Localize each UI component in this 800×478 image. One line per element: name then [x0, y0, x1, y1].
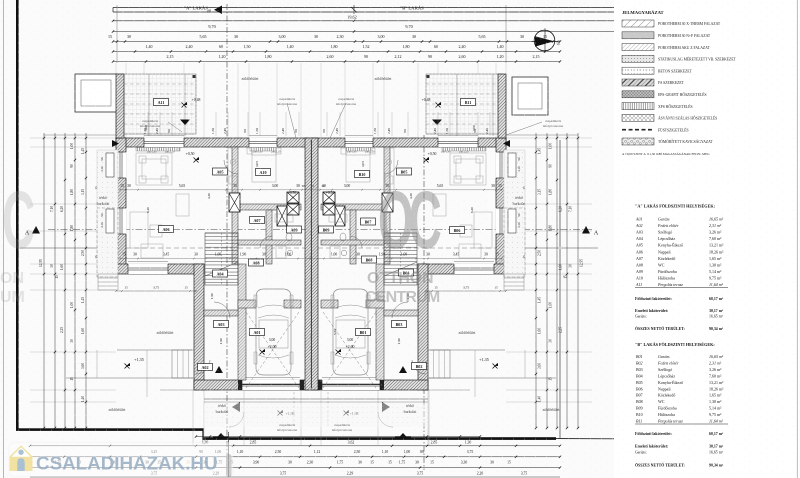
svg-text:15: 15 [120, 184, 124, 188]
svg-text:A11: A11 [635, 282, 642, 287]
svg-text:30: 30 [301, 184, 305, 188]
svg-text:30: 30 [288, 461, 292, 465]
svg-text:1,80: 1,80 [549, 225, 554, 231]
svg-text:A01: A01 [635, 217, 642, 222]
svg-text:6,20: 6,20 [146, 207, 151, 213]
svg-text:Konyha-Étkező: Konyha-Étkező [658, 243, 683, 248]
svg-text:1,00: 1,00 [70, 302, 75, 308]
svg-text:+0,50: +0,50 [428, 152, 437, 157]
svg-text:B03: B03 [636, 367, 643, 372]
svg-text:"B" LAKÁS FÖLDSZINTI HELYISÉGE: "B" LAKÁS FÖLDSZINTI HELYISÉGEK: [635, 342, 715, 347]
svg-text:5,65: 5,65 [179, 184, 186, 189]
svg-text:1,00: 1,00 [549, 302, 554, 308]
svg-text:2,10: 2,10 [100, 166, 104, 172]
svg-text:1,60: 1,60 [559, 264, 564, 270]
svg-text:FÜSTSZIGETELÉS: FÜSTSZIGETELÉS [658, 127, 689, 132]
svg-text:1,50: 1,50 [244, 44, 251, 50]
svg-text:15: 15 [124, 286, 128, 290]
svg-text:A10: A10 [259, 170, 266, 175]
svg-text:ÖSSZES NETTÓ TERÜLET:: ÖSSZES NETTÓ TERÜLET: [635, 326, 685, 331]
svg-text:3,00: 3,00 [272, 184, 279, 189]
svg-text:3,60: 3,60 [538, 363, 543, 369]
svg-text:1,40: 1,40 [497, 44, 504, 50]
svg-text:3,00: 3,00 [347, 338, 354, 343]
svg-text:1,45: 1,45 [538, 297, 543, 303]
svg-text:csapadékvíz: csapadékvíz [142, 119, 159, 123]
svg-text:Földszinti lakóterület:: Földszinti lakóterület: [635, 297, 672, 301]
svg-text:2,40: 2,40 [186, 44, 193, 50]
svg-text:burkolat: burkolat [513, 202, 527, 206]
svg-text:3,75: 3,75 [417, 471, 424, 476]
svg-text:Garázs:: Garázs: [635, 314, 647, 318]
svg-text:B01: B01 [636, 354, 642, 359]
svg-text:EPS-GRAFIT HŐSZIGETELÉS: EPS-GRAFIT HŐSZIGETELÉS [658, 92, 707, 97]
svg-text:B11: B11 [636, 419, 642, 424]
svg-text:30: 30 [234, 34, 238, 39]
svg-text:15: 15 [564, 275, 568, 279]
svg-text:A06: A06 [636, 249, 643, 254]
svg-text:2,29: 2,29 [347, 471, 354, 476]
svg-text:lefolyócsatorna: lefolyócsatorna [336, 102, 357, 106]
svg-text:Lépcsőház: Lépcsőház [658, 236, 675, 241]
svg-text:Fürdőszoba: Fürdőszoba [658, 406, 677, 411]
svg-text:1,60: 1,60 [538, 328, 543, 334]
svg-text:A04: A04 [216, 271, 223, 276]
svg-text:B10: B10 [359, 172, 366, 177]
svg-text:1,60: 1,60 [60, 264, 65, 270]
svg-text:3,05: 3,05 [361, 161, 366, 167]
svg-text:A07: A07 [253, 218, 260, 223]
svg-text:B08: B08 [636, 399, 643, 404]
svg-text:15: 15 [70, 377, 74, 381]
svg-text:30: 30 [127, 184, 131, 188]
svg-text:2,49: 2,49 [281, 128, 286, 134]
svg-text:30: 30 [549, 339, 553, 343]
svg-text:2,50: 2,50 [354, 450, 361, 455]
svg-text:1,40: 1,40 [81, 396, 86, 402]
svg-text:Nappali: Nappali [658, 386, 672, 391]
svg-text:15: 15 [122, 253, 126, 257]
svg-text:A01: A01 [253, 330, 260, 335]
svg-text:1,12: 1,12 [314, 450, 321, 455]
svg-text:A08: A08 [636, 262, 643, 267]
svg-text:2,12: 2,12 [395, 54, 402, 60]
svg-text:2,10: 2,10 [517, 166, 521, 172]
svg-text:5,65: 5,65 [479, 34, 486, 40]
svg-text:A08: A08 [252, 260, 259, 265]
svg-text:1,80: 1,80 [331, 44, 338, 50]
svg-text:90: 90 [167, 129, 171, 133]
svg-text:"A" LAKÁS: "A" LAKÁS [184, 6, 208, 11]
svg-text:1,00: 1,00 [549, 143, 554, 149]
svg-text:burkolat: burkolat [97, 202, 111, 206]
svg-text:ÁSVÁNYI SZÁLAS HŐSZIGETELÉS: ÁSVÁNYI SZÁLAS HŐSZIGETELÉS [658, 116, 717, 121]
svg-text:A06: A06 [162, 227, 169, 232]
svg-text:Pergolás terasz: Pergolás terasz [657, 419, 683, 424]
svg-text:1,60: 1,60 [81, 328, 86, 334]
svg-text:30: 30 [412, 34, 416, 39]
svg-text:A09: A09 [290, 227, 297, 232]
svg-text:30,17 m²: 30,17 m² [709, 309, 724, 313]
svg-text:B10: B10 [636, 412, 643, 417]
svg-text:B08: B08 [366, 257, 373, 262]
svg-text:3,00: 3,00 [378, 34, 385, 40]
svg-text:7,10: 7,10 [569, 206, 574, 212]
svg-text:3,62: 3,62 [348, 441, 355, 446]
svg-text:B05: B05 [636, 380, 643, 385]
svg-text:5,65: 5,65 [200, 34, 207, 40]
svg-text:C: C [2, 175, 35, 266]
svg-text:B09: B09 [323, 227, 330, 232]
svg-text:térkő: térkő [99, 196, 107, 200]
svg-text:9,70: 9,70 [208, 24, 215, 30]
svg-text:2,50: 2,50 [538, 250, 543, 256]
svg-text:90: 90 [403, 129, 407, 133]
svg-text:6,20: 6,20 [559, 206, 564, 212]
svg-text:2,10: 2,10 [100, 222, 104, 228]
svg-text:30: 30 [127, 34, 131, 39]
svg-text:15: 15 [55, 275, 59, 279]
svg-text:3,75: 3,75 [280, 471, 287, 476]
svg-text:90: 90 [243, 129, 247, 133]
svg-text:Emeleti lakóterület:: Emeleti lakóterület: [635, 309, 668, 313]
svg-text:térkő: térkő [515, 196, 523, 200]
svg-text:30: 30 [133, 253, 137, 257]
svg-text:12,95: 12,95 [580, 259, 585, 267]
svg-text:3,45: 3,45 [163, 253, 170, 258]
svg-text:5,55: 5,55 [333, 329, 338, 335]
svg-text:3,00: 3,00 [269, 338, 276, 343]
svg-text:lefolyócsatorna: lefolyócsatorna [332, 428, 353, 432]
svg-text:15: 15 [549, 377, 553, 381]
svg-text:B02: B02 [416, 364, 423, 369]
svg-text:POROTHERM 30 N+F FALAZAT: POROTHERM 30 N+F FALAZAT [658, 34, 711, 38]
svg-text:2,50: 2,50 [275, 450, 282, 455]
svg-text:1,90: 1,90 [240, 253, 247, 258]
svg-text:Fedett előtér: Fedett előtér [657, 360, 679, 365]
svg-text:1,45: 1,45 [538, 148, 543, 154]
svg-text:A03: A03 [636, 230, 643, 235]
svg-text:B05: B05 [401, 169, 408, 174]
svg-text:A09: A09 [636, 269, 643, 274]
svg-text:3,45: 3,45 [453, 253, 460, 258]
svg-text:1,75: 1,75 [337, 461, 344, 466]
svg-text:12,95: 12,95 [39, 259, 44, 267]
svg-text:B04: B04 [636, 373, 643, 378]
svg-text:zöldfelület: zöldfelület [108, 407, 126, 412]
svg-text:"B" LAKÁS: "B" LAKÁS [400, 6, 424, 11]
svg-text:60,17 m²: 60,17 m² [709, 432, 724, 436]
svg-text:2,10: 2,10 [517, 222, 521, 228]
svg-text:UM: UM [0, 289, 25, 306]
svg-text:2,49: 2,49 [335, 128, 340, 134]
svg-text:5,65: 5,65 [437, 184, 444, 189]
svg-text:zöldfelület: zöldfelület [542, 407, 560, 412]
svg-text:B03: B03 [396, 322, 403, 327]
svg-text:15: 15 [494, 286, 498, 290]
svg-text:POROTHERM 30 X-THERM FALAZAT: POROTHERM 30 X-THERM FALAZAT [658, 22, 721, 26]
svg-text:1,50: 1,50 [373, 128, 378, 134]
svg-text:A10: A10 [636, 275, 643, 280]
svg-text:1,52: 1,52 [363, 44, 370, 50]
svg-text:1,00: 1,00 [285, 253, 292, 258]
svg-text:csapadékvíz: csapadékvíz [338, 97, 355, 101]
svg-text:1,20: 1,20 [219, 54, 226, 60]
svg-text:Hálószoba: Hálószoba [658, 412, 675, 417]
svg-text:XPS HŐSZIGETELÉS: XPS HŐSZIGETELÉS [658, 104, 693, 109]
svg-text:"A" LAKÁS FÖLDSZINTI HELYISÉGE: "A" LAKÁS FÖLDSZINTI HELYISÉGEK: [635, 204, 716, 209]
svg-text:A07: A07 [636, 256, 643, 261]
svg-text:WC: WC [658, 262, 665, 267]
svg-text:1,90: 1,90 [210, 293, 215, 299]
svg-text:30: 30 [50, 264, 54, 268]
svg-text:Emeleti lakóterület:: Emeleti lakóterület: [635, 445, 668, 449]
svg-text:3,60: 3,60 [81, 363, 86, 369]
svg-text:B02: B02 [636, 360, 642, 365]
svg-text:csapadékvíz: csapadékvíz [279, 423, 296, 427]
svg-text:30: 30 [356, 253, 360, 257]
svg-text:Garázs: Garázs [658, 217, 670, 222]
svg-text:2,25: 2,25 [559, 327, 564, 333]
svg-text:ÖSSZES NETTÓ TERÜLET:: ÖSSZES NETTÓ TERÜLET: [635, 463, 685, 468]
svg-text:burkolat: burkolat [216, 410, 230, 414]
svg-text:1,10: 1,10 [382, 450, 389, 455]
svg-text:Közlekedő: Közlekedő [658, 256, 675, 261]
svg-text:30: 30 [194, 253, 198, 257]
svg-text:15: 15 [94, 255, 98, 259]
svg-text:lefolyócsatorna: lefolyócsatorna [277, 428, 298, 432]
svg-text:A02: A02 [201, 365, 208, 370]
svg-text:B09: B09 [636, 406, 643, 411]
svg-text:60,17 m²: 60,17 m² [709, 297, 724, 301]
svg-text:2,60: 2,60 [327, 54, 334, 60]
svg-text:WC: WC [658, 399, 665, 404]
svg-text:Garázs: Garázs [658, 354, 670, 359]
svg-text:15: 15 [507, 461, 511, 465]
svg-text:1,30: 1,30 [465, 441, 472, 446]
svg-text:Fürdőszoba: Fürdőszoba [658, 269, 677, 274]
svg-text:STATIKUSLAG MÉRETEZETT VB. SZE: STATIKUSLAG MÉRETEZETT VB. SZERKEZET [658, 57, 737, 62]
svg-text:Lépcsőház: Lépcsőház [658, 373, 675, 378]
svg-text:30: 30 [415, 461, 419, 465]
svg-text:A03: A03 [217, 322, 224, 327]
svg-text:B11: B11 [465, 100, 472, 105]
svg-text:térkő: térkő [406, 404, 414, 408]
svg-text:15: 15 [498, 184, 502, 188]
svg-text:3,75: 3,75 [463, 286, 469, 291]
svg-text:A05: A05 [216, 169, 223, 174]
svg-text:csapadékvíz: csapadékvíz [334, 423, 351, 427]
svg-text:A04: A04 [636, 236, 643, 241]
svg-text:Konyha-Étkező: Konyha-Étkező [658, 380, 683, 385]
svg-text:OTTHON: OTTHON [367, 270, 433, 287]
svg-text:80: 80 [420, 450, 424, 454]
svg-text:90: 90 [322, 129, 326, 133]
svg-text:30: 30 [490, 461, 494, 465]
svg-text:2,15: 2,15 [167, 54, 174, 60]
svg-text:4,30: 4,30 [207, 193, 212, 199]
svg-text:6,20: 6,20 [60, 206, 65, 212]
svg-text:1,50: 1,50 [211, 128, 216, 134]
svg-text:Hálószoba: Hálószoba [658, 275, 675, 280]
svg-text:60: 60 [434, 44, 438, 49]
svg-text:lefolyócsatorna: lefolyócsatorna [140, 124, 161, 128]
svg-text:19,62: 19,62 [347, 15, 356, 21]
svg-text:1,00: 1,00 [215, 253, 222, 258]
svg-text:2,15: 2,15 [533, 54, 540, 60]
svg-text:térkő: térkő [218, 404, 226, 408]
svg-text:90,34 m²: 90,34 m² [709, 464, 724, 468]
svg-text:Pergolás terasz: Pergolás terasz [657, 282, 683, 287]
svg-text:30: 30 [321, 184, 325, 188]
svg-text:15: 15 [430, 461, 434, 465]
svg-text:BETON SZERKEZET: BETON SZERKEZET [658, 69, 693, 73]
svg-text:2,85: 2,85 [431, 441, 438, 446]
svg-text:2,20: 2,20 [477, 471, 484, 476]
svg-text:30: 30 [520, 34, 524, 39]
svg-text:+1,35: +1,35 [134, 357, 144, 363]
svg-text:B06: B06 [636, 386, 643, 391]
svg-text:A05: A05 [636, 243, 643, 248]
svg-text:90: 90 [428, 54, 432, 59]
svg-text:3,15: 3,15 [538, 189, 543, 195]
svg-text:15: 15 [108, 34, 112, 39]
svg-text:2,85: 2,85 [250, 441, 257, 446]
svg-text:15: 15 [184, 286, 188, 290]
svg-text:15: 15 [370, 461, 374, 465]
svg-text:1,80: 1,80 [70, 225, 75, 231]
svg-text:15: 15 [94, 186, 98, 190]
svg-text:B01: B01 [360, 330, 367, 335]
svg-text:CSALADIHAZAK.HU: CSALADIHAZAK.HU [36, 453, 218, 474]
svg-text:Garázs:: Garázs: [635, 450, 647, 454]
svg-text:+1,35: +1,35 [479, 357, 489, 363]
svg-text:3,05: 3,05 [255, 161, 260, 167]
svg-text:15: 15 [388, 461, 392, 465]
svg-text:2,40: 2,40 [459, 44, 466, 50]
svg-text:30: 30 [569, 264, 573, 268]
svg-text:1,90: 1,90 [397, 338, 402, 344]
svg-text:3,30: 3,30 [461, 461, 468, 466]
svg-text:zöldfelület: zöldfelület [241, 76, 259, 81]
svg-text:1,00: 1,00 [70, 143, 75, 149]
svg-text:FA SZERKEZET: FA SZERKEZET [658, 81, 685, 85]
svg-text:ON: ON [0, 270, 24, 287]
svg-text:1,45: 1,45 [81, 297, 86, 303]
svg-text:3,75: 3,75 [467, 450, 474, 455]
svg-text:90: 90 [294, 129, 298, 133]
svg-text:1,80: 1,80 [70, 189, 75, 195]
svg-text:A02: A02 [635, 223, 642, 228]
svg-text:zöldfelület: zöldfelület [458, 330, 476, 335]
svg-text:3,00: 3,00 [279, 34, 286, 40]
svg-text:TÖMÖRÍTETT KAVICSÁGYAZAT: TÖMÖRÍTETT KAVICSÁGYAZAT [658, 139, 713, 144]
svg-text:1,40: 1,40 [538, 396, 543, 402]
svg-text:A11: A11 [158, 100, 165, 105]
svg-text:CENTRUM: CENTRUM [365, 289, 440, 306]
svg-text:15: 15 [495, 253, 499, 257]
svg-text:90: 90 [549, 164, 553, 168]
svg-text:30: 30 [484, 253, 488, 257]
svg-text:Szélfogó: Szélfogó [658, 367, 672, 372]
svg-text:1,10: 1,10 [237, 450, 244, 455]
svg-text:+0,50: +0,50 [186, 152, 195, 157]
svg-text:burkolat: burkolat [404, 410, 418, 414]
svg-text:9,70: 9,70 [405, 24, 412, 30]
svg-text:2,60: 2,60 [459, 54, 466, 60]
svg-text:7,10: 7,10 [50, 206, 55, 212]
svg-text:1,40: 1,40 [146, 44, 153, 50]
svg-text:1,75: 1,75 [399, 461, 406, 466]
svg-text:1,90: 1,90 [219, 338, 224, 344]
svg-text:2,30: 2,30 [337, 34, 344, 40]
svg-text:3,00: 3,00 [344, 184, 351, 189]
svg-text:15: 15 [522, 255, 526, 259]
svg-text:1,80: 1,80 [403, 44, 410, 50]
svg-text:A: A [594, 231, 599, 237]
svg-text:3,75: 3,75 [521, 471, 528, 476]
svg-text:lefolyócsatorna: lefolyócsatorna [543, 124, 564, 128]
svg-text:B06: B06 [454, 228, 461, 233]
svg-text:90,34 m²: 90,34 m² [709, 327, 724, 331]
svg-text:B07: B07 [636, 393, 643, 398]
svg-text:(É): (É) [555, 39, 561, 45]
svg-text:30: 30 [296, 184, 300, 188]
svg-text:30: 30 [491, 184, 495, 188]
svg-text:JELMAGYARÁZAT: JELMAGYARÁZAT [622, 10, 664, 15]
svg-text:30: 30 [262, 253, 266, 257]
svg-text:1,00: 1,00 [404, 450, 411, 455]
svg-text:1,00: 1,00 [331, 253, 338, 258]
svg-text:3,90: 3,90 [253, 461, 260, 466]
svg-text:OC: OC [378, 175, 441, 266]
svg-text:90: 90 [473, 129, 477, 133]
svg-text:2,49: 2,49 [387, 128, 392, 134]
svg-text:csapadékvíz: csapadékvíz [279, 97, 296, 101]
svg-text:zöldfelület: zöldfelület [156, 330, 174, 335]
svg-text:Közlekedő: Közlekedő [658, 393, 675, 398]
svg-text:2,50: 2,50 [81, 250, 86, 256]
svg-text:Fedett előtér: Fedett előtér [657, 223, 679, 228]
svg-text:30: 30 [314, 34, 318, 39]
svg-text:30: 30 [233, 184, 237, 188]
svg-text:1,50: 1,50 [255, 128, 260, 134]
svg-text:30: 30 [358, 461, 362, 465]
svg-text:1,40: 1,40 [287, 44, 294, 50]
svg-text:Szélfogó: Szélfogó [658, 230, 672, 235]
svg-text:Nappali: Nappali [658, 249, 672, 254]
svg-text:1,80: 1,80 [265, 54, 272, 60]
svg-text:30,17 m²: 30,17 m² [709, 445, 724, 449]
svg-text:1,20: 1,20 [497, 54, 504, 60]
svg-text:1,80: 1,80 [549, 189, 554, 195]
svg-text:Földszinti lakóterület:: Földszinti lakóterület: [635, 432, 672, 436]
svg-text:B07: B07 [365, 219, 372, 224]
svg-text:zöldfelület: zöldfelület [374, 76, 392, 81]
svg-text:2,25: 2,25 [60, 327, 65, 333]
svg-text:90: 90 [70, 164, 74, 168]
svg-text:csapadékvíz: csapadékvíz [545, 119, 562, 123]
svg-text:2,30: 2,30 [307, 461, 314, 466]
svg-text:B: B [208, 9, 213, 13]
svg-text:3,15: 3,15 [81, 189, 86, 195]
svg-text:POROTHERM AKU Z FALAZAT: POROTHERM AKU Z FALAZAT [658, 46, 710, 50]
svg-text:60: 60 [219, 44, 223, 49]
svg-text:3,75: 3,75 [153, 286, 159, 291]
svg-text:30: 30 [70, 339, 74, 343]
svg-text:90: 90 [364, 54, 368, 59]
svg-text:15: 15 [522, 186, 526, 190]
